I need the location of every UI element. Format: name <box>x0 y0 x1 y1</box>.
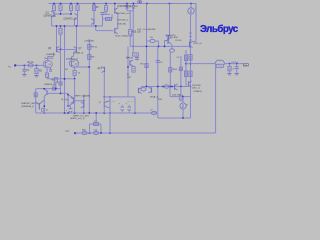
ellipse RE14 <box>164 85 169 88</box>
wire R5 lead <box>70 11 72 14</box>
junction in 1 <box>24 65 26 67</box>
ellipse RF2 <box>93 131 98 134</box>
node fb marker <box>74 132 76 134</box>
junction lr 5 <box>134 112 136 114</box>
resistor R9 <box>106 17 112 20</box>
wire J1 source <box>46 68 48 73</box>
wire diff mid stem <box>60 34 62 49</box>
wire left col <box>35 89 37 113</box>
label net3 <box>118 24 127 26</box>
wire RL right leg <box>223 64 225 66</box>
diode D3 <box>150 39 155 42</box>
junction fb <box>89 66 91 68</box>
svg-text:Out: Out <box>244 64 248 67</box>
transistor Q13 <box>102 67 105 73</box>
wire d3 link2 <box>155 41 159 46</box>
label Q4 model <box>118 6 132 8</box>
label R14 <box>92 57 96 59</box>
wire diode drop <box>129 11 131 30</box>
wire R7 stem <box>93 4 95 27</box>
wire driver mid h <box>170 96 191 98</box>
wire ll h <box>36 88 61 90</box>
wire driver top h <box>142 86 189 88</box>
wire fb tap <box>109 113 111 133</box>
resistor R26b <box>52 87 55 90</box>
wire Q4 stem <box>114 4 116 9</box>
svg-text:(2SK170): (2SK170) <box>44 58 54 60</box>
wire I1 top lead <box>190 4 192 8</box>
transistor Q8 <box>166 35 169 41</box>
wire x158 vertical <box>157 46 159 118</box>
diode D2 <box>132 4 135 11</box>
diode column marks <box>189 33 191 40</box>
resistor R10 <box>59 29 62 35</box>
label R13 <box>92 47 99 49</box>
junction bf 3 <box>109 132 111 134</box>
label Q1 model <box>44 15 56 18</box>
label Q1 <box>46 12 50 15</box>
ground gnd4 <box>235 74 239 75</box>
transistor Q23 <box>149 87 152 93</box>
label Q24 model2 <box>192 88 200 90</box>
wire fb loop up <box>89 124 91 133</box>
svg-text:G: G <box>67 99 69 101</box>
svg-text:Q2: Q2 <box>75 63 78 65</box>
wire RL left leg <box>215 64 217 66</box>
junction rail F2 <box>133 3 135 5</box>
label R2 <box>39 71 43 73</box>
junction dr 1c <box>170 86 172 88</box>
wire zobel R lead <box>229 64 231 67</box>
transistor Q4 <box>115 8 118 14</box>
wire RJ1 bottom <box>46 78 48 79</box>
wire vas emitter h <box>103 13 110 15</box>
resistor R14 <box>88 54 91 59</box>
label x128a <box>127 57 131 59</box>
label D3 <box>150 37 154 39</box>
transistor Q9 <box>168 37 171 44</box>
svg-text:uout: uout <box>65 130 70 133</box>
resistor R23 <box>189 71 192 77</box>
junction dm <box>182 96 184 98</box>
svg-text:(2SA970_2): (2SA970_2) <box>66 57 78 60</box>
capacitor CJ1 <box>49 70 52 71</box>
wire Q9 collector <box>170 36 172 39</box>
label RE12 <box>78 73 81 75</box>
wire vas right stub <box>111 14 113 19</box>
resistor R15 <box>129 30 132 36</box>
capacitor C10 polar <box>69 109 73 113</box>
junction out node2 <box>185 63 187 65</box>
junction vbe 3 <box>164 46 166 48</box>
transistor Q16 <box>36 100 45 110</box>
wire Q10 collector <box>193 41 197 43</box>
svg-text:(KSC_2): (KSC_2) <box>194 43 202 45</box>
transistor Q6 <box>57 47 60 53</box>
wire x96 stub <box>95 26 97 31</box>
wire x137 stub <box>136 56 138 61</box>
wire Q9 base link <box>165 41 169 47</box>
transistor Q10 vbe mult <box>190 42 193 48</box>
wire R26 down <box>55 83 57 89</box>
wire lm base h <box>104 96 135 98</box>
wire diode join <box>127 10 133 12</box>
junction out b <box>236 63 238 65</box>
resistor R19 <box>133 53 139 56</box>
resistor R19b <box>179 67 182 71</box>
label RF2 <box>94 130 99 132</box>
transistor Q25 <box>189 81 192 87</box>
label In <box>9 65 12 68</box>
wire R19 stub <box>132 46 134 53</box>
junction dr 0 <box>146 86 148 88</box>
label net1 <box>116 13 130 15</box>
wire tail down <box>60 50 62 93</box>
svg-text:OUT_1: OUT_1 <box>231 62 239 64</box>
wire diff base link <box>57 49 77 51</box>
label x179 top <box>177 57 181 59</box>
transistor Q18n <box>71 97 74 103</box>
label net2 <box>118 20 129 22</box>
junction dr 3 <box>171 86 173 88</box>
label J1 model <box>44 58 54 60</box>
junction lr 4 <box>104 112 106 114</box>
label Q14b <box>172 94 181 97</box>
svg-text:D5,D6: D5,D6 <box>176 40 183 42</box>
svg-text:(D45H11): (D45H11) <box>166 35 176 37</box>
label R17 <box>141 63 145 65</box>
junction out node <box>190 63 192 65</box>
label C10 <box>66 110 68 112</box>
label J1 id <box>49 64 52 66</box>
junction q18 b <box>83 100 85 102</box>
ellipse RF3 <box>151 111 156 114</box>
label C4 <box>160 62 164 64</box>
svg-text:Q13: Q13 <box>98 68 103 70</box>
junction dr 1d <box>180 86 182 88</box>
junction rail C <box>93 3 95 5</box>
transistor Q1 <box>51 11 54 17</box>
transistor Q22 <box>139 88 142 94</box>
wire x179 vertical <box>180 56 182 87</box>
junction diff base <box>60 49 62 51</box>
wire x135 down <box>134 97 136 113</box>
resistor R8 <box>104 6 107 12</box>
junction vbe 2 <box>158 46 160 48</box>
wire I1 bottom lead <box>190 14 193 16</box>
wire x68 stem <box>67 93 69 106</box>
source V1 <box>138 0 142 3</box>
wire x171 vertical <box>169 52 171 86</box>
junction dr 1 <box>157 86 159 88</box>
label Q13 <box>98 68 103 70</box>
wire fb vertical <box>88 40 90 113</box>
junction rail2 a <box>56 25 58 27</box>
junction rail B2 <box>77 3 79 5</box>
wire lower rail <box>36 112 157 114</box>
wire x181 drop <box>180 87 182 96</box>
junction lm <box>104 96 106 98</box>
wire x128 vertical <box>127 46 129 97</box>
wire fb tap upper <box>109 97 111 113</box>
svg-text:KSC350_2: KSC350_2 <box>118 20 129 22</box>
label D5D6 <box>176 40 183 42</box>
junction rail D <box>105 3 107 5</box>
wire R3 top lead <box>53 4 55 6</box>
label R15 <box>132 32 141 34</box>
wire zobel R gnd <box>229 71 231 73</box>
junction rail A2 <box>60 3 62 5</box>
resistor R16 <box>132 67 135 73</box>
transistor J2 <box>69 60 79 68</box>
junction lr 1 <box>64 112 66 114</box>
wire R8 down <box>105 11 107 14</box>
resistor R20 <box>189 55 192 61</box>
junction db <box>182 117 184 119</box>
junction x133 <box>132 46 134 48</box>
resistor R34 <box>179 95 182 100</box>
wire nfb h <box>75 66 89 68</box>
resistor RE12 <box>73 70 76 75</box>
label q4b net <box>116 36 133 38</box>
junction em 2 <box>74 78 76 80</box>
svg-text:+off: +off <box>83 96 87 98</box>
wire q4b base h <box>96 30 114 32</box>
junction rail2 c <box>64 25 66 27</box>
junction rail A1 <box>53 3 55 5</box>
wire I2 bottom <box>182 109 184 118</box>
transistor Q15 <box>44 89 47 97</box>
junction out a <box>229 63 231 65</box>
inductor L1 <box>215 60 225 64</box>
resistor R2 <box>35 69 38 74</box>
resistor R21 <box>184 55 187 61</box>
svg-text:R15 100: R15 100 <box>132 32 141 34</box>
wire vbe vertical x169 <box>169 4 171 37</box>
svg-text:(2SA970_1): (2SA970_1) <box>44 15 56 18</box>
label Q23 <box>150 96 159 99</box>
label C7 <box>119 103 121 106</box>
wire R4 lead <box>60 11 62 14</box>
label I1 <box>195 9 198 11</box>
capacitor C1 <box>22 69 26 71</box>
svg-text:Q9 KSC: Q9 KSC <box>171 37 179 39</box>
resistor R26 <box>54 78 57 83</box>
ellipse RE11 <box>170 49 175 52</box>
capacitor C11 <box>135 58 139 60</box>
label drv mid <box>158 99 163 101</box>
node In marker <box>14 64 16 66</box>
label Q10 <box>194 43 202 45</box>
wire x104 stem2 <box>103 86 105 113</box>
wire Q9 emitter <box>171 44 172 49</box>
junction ll <box>60 93 62 95</box>
wire Q6 collector path <box>48 53 54 61</box>
wire vas deg h <box>103 18 113 20</box>
resistor Rtail <box>59 82 62 85</box>
wire diff x64 stem <box>64 26 66 113</box>
label Q7 <box>79 48 83 50</box>
wire x44.8 drop <box>43 96 45 113</box>
resistor R25 <box>228 66 231 71</box>
svg-text:(2SA970): (2SA970) <box>46 53 56 56</box>
ground gnd3 <box>227 74 231 75</box>
ground gnd2 <box>34 76 38 77</box>
svg-text:(2SC_1): (2SC_1) <box>192 88 200 90</box>
wire q18 base h <box>74 100 84 102</box>
wire rail end drop <box>195 4 197 42</box>
wire R10 top <box>60 26 62 29</box>
label R29 <box>46 110 49 112</box>
junction base B <box>70 13 72 15</box>
junction lr 0d <box>109 112 111 114</box>
label R18 <box>173 69 178 71</box>
wire q22 stub <box>141 87 143 89</box>
svg-text:(2SA19): (2SA19) <box>194 90 202 93</box>
transistor Q14 <box>130 60 133 66</box>
junction rail I <box>169 3 171 5</box>
svg-text:(2SA9_2): (2SA9_2) <box>74 52 84 55</box>
svg-text:___ __: ___ __ <box>126 100 134 102</box>
junction base A <box>60 13 62 15</box>
junction in 2 <box>36 65 38 67</box>
wire elcap lead2 <box>70 106 72 108</box>
wire diff right stem <box>76 26 78 47</box>
resistor R30 <box>34 93 37 97</box>
node Out box <box>243 64 248 67</box>
wire top rail V+ <box>49 3 196 5</box>
label Q14 model <box>126 58 133 60</box>
wire top-left lower rail <box>52 25 103 27</box>
transistor Q24 <box>175 84 178 90</box>
resistor R18 <box>169 67 172 72</box>
label lm1 <box>105 100 116 102</box>
wire x181 tail <box>180 100 182 102</box>
label srpp2 <box>70 117 85 120</box>
junction dr 2 <box>162 86 164 88</box>
junction lr 2 <box>74 112 76 114</box>
transistor Q4b <box>115 28 118 34</box>
resistor R4 <box>59 5 62 11</box>
svg-text:(K_1): (K_1) <box>61 99 67 101</box>
junction x96 <box>95 25 97 27</box>
label Q2 model <box>64 18 76 21</box>
ground gnd1 <box>22 75 26 76</box>
capacitor C8 polar <box>128 105 132 113</box>
wire x83.8 <box>83 95 85 114</box>
resistor R3 <box>52 5 55 11</box>
wire R8 top <box>105 4 107 6</box>
junction lr 0c <box>89 112 91 114</box>
wire vas left stem <box>102 15 104 27</box>
wire Q7 collector path <box>72 53 74 60</box>
wire out tail <box>225 63 243 65</box>
wire diff emitter h <box>47 78 75 80</box>
label x128b <box>127 74 131 76</box>
wire q21 tips <box>107 101 110 108</box>
resistor R22 <box>184 71 187 77</box>
resistor R29 <box>41 108 43 111</box>
svg-text:R5 2k: R5 2k <box>92 47 99 49</box>
label srpp top <box>75 94 92 97</box>
label Q6 <box>48 48 52 50</box>
transistor Q19 <box>81 102 84 108</box>
label out net <box>231 62 239 64</box>
resistor R5 <box>69 5 72 11</box>
label Q6 model <box>46 53 56 56</box>
label drv2 <box>21 105 34 108</box>
label fb node <box>65 130 70 133</box>
svg-text:R1 1k: R1 1k <box>28 62 35 64</box>
svg-text:(2SA970_2): (2SA970_2) <box>64 18 76 21</box>
wire d3 link <box>147 40 151 42</box>
wire C1 gnd lead <box>23 71 25 74</box>
wire output node drop <box>215 64 217 133</box>
wire Q1 collector <box>51 17 53 26</box>
capacitor C2 <box>101 13 105 15</box>
label out to driver <box>137 29 156 31</box>
transistor Q2 <box>75 14 78 20</box>
svg-text:(KSC3503_1): (KSC3503_1) <box>118 6 132 8</box>
label x128c <box>127 77 131 79</box>
junction q15 c <box>43 88 45 90</box>
capacitor C7 polar <box>121 105 125 113</box>
wire fb loop down <box>100 124 102 133</box>
junction lr 0b <box>83 112 85 114</box>
junction x128 <box>127 66 129 68</box>
resistor R24 <box>216 64 223 67</box>
wire out resistor col <box>185 50 187 87</box>
wire x104 mid <box>103 72 105 86</box>
svg-text:(2SB649A_1): (2SB649A_1) <box>21 105 34 108</box>
junction rail J <box>190 3 192 5</box>
label lm2 <box>126 100 134 102</box>
svg-text:2SA1837_SEL1: 2SA1837_SEL1 <box>21 102 37 105</box>
ellipse RF1 <box>82 131 87 134</box>
label Q18 <box>67 99 69 101</box>
resistor R7 <box>92 5 95 11</box>
label srpp <box>73 114 90 117</box>
label R26 <box>52 80 56 82</box>
label Q24 model <box>192 85 202 87</box>
svg-text:Эльбрус: Эльбрус <box>200 24 239 35</box>
label R32 <box>94 121 98 123</box>
wire zobel C gnd <box>236 69 238 74</box>
label D2 <box>135 6 138 8</box>
wire input <box>16 64 43 66</box>
label R26b <box>53 84 56 86</box>
label drv1 <box>21 102 37 105</box>
wire Q2 collector <box>74 20 76 27</box>
wire J2 source <box>74 67 76 70</box>
junction rail F <box>126 3 128 5</box>
wire Q4 emitter <box>117 13 119 29</box>
junction bf 2 <box>100 132 102 134</box>
label Q9 <box>171 37 179 39</box>
wire elcap lead <box>68 105 70 107</box>
junction q18 e <box>67 105 69 107</box>
current source I1 <box>188 8 194 14</box>
label Q12 model <box>66 57 78 60</box>
label q19 plus <box>83 96 87 98</box>
label R27 model <box>61 99 67 101</box>
label R7 <box>96 7 100 9</box>
label Q12b <box>65 69 68 71</box>
current source I2 <box>180 103 186 109</box>
wire fb top tick <box>88 39 90 41</box>
label Q7 model <box>74 52 84 55</box>
label Q21 <box>100 103 102 105</box>
